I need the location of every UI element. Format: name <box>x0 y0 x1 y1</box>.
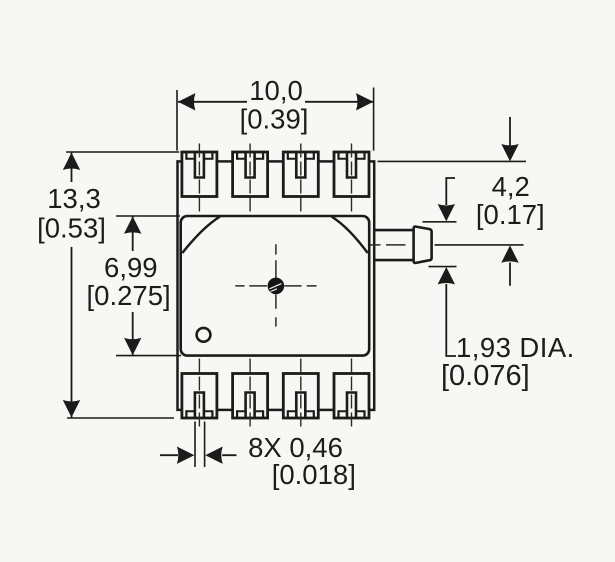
center vent hole <box>268 278 285 295</box>
dia 1,93 bottom leader <box>446 284 456 356</box>
svg-text:6,99: 6,99 <box>104 252 158 283</box>
port centerline dashes <box>364 244 406 246</box>
svg-text:13,3: 13,3 <box>47 183 101 214</box>
dim 13,3 arrows <box>63 153 80 170</box>
cap (lid) rounded rectangle <box>181 216 370 356</box>
svg-text:[0.018]: [0.018] <box>272 459 356 490</box>
pin 7 bottom <box>233 359 268 427</box>
dia 1,93 extension lines <box>423 222 457 267</box>
dia 1,93 top leader <box>445 178 455 205</box>
port tube <box>374 230 415 260</box>
dim 4,2 extension line (body top edge) <box>378 160 527 162</box>
pin 2 top <box>233 144 268 212</box>
svg-text:10,0: 10,0 <box>249 75 303 106</box>
pin 5 bottom <box>334 359 369 427</box>
svg-text:4,2: 4,2 <box>492 171 530 202</box>
svg-text:[0.53]: [0.53] <box>37 213 106 244</box>
pin 1 indicator circle <box>197 328 211 342</box>
dim 6,99 arrows <box>124 216 141 233</box>
svg-text:[0.076]: [0.076] <box>441 360 530 392</box>
port centerline extension <box>435 244 524 246</box>
dim 13,3 line <box>71 153 73 418</box>
svg-text:[0.275]: [0.275] <box>87 280 171 311</box>
dim 10,0 arrows <box>178 93 195 110</box>
dim 8X 0,46 extension lines <box>195 422 205 468</box>
dim 13,3 extension lines <box>66 152 179 418</box>
dim 10,0 extension lines <box>177 88 374 151</box>
svg-text:[0.17]: [0.17] <box>476 199 545 230</box>
pin 3 top <box>283 144 318 212</box>
cap left corner sweep <box>182 217 220 254</box>
cap right corner sweep <box>332 217 368 254</box>
dim 8X arrows and shafts <box>160 454 237 456</box>
dim 6,99 extension lines <box>116 216 181 356</box>
pin 4 top <box>334 144 369 212</box>
port barb tip <box>414 227 432 263</box>
pin 6 bottom <box>283 359 318 427</box>
dim 4,2 arrows and leaders <box>509 117 511 286</box>
center crosshair <box>235 244 316 326</box>
svg-text:1,93 DIA.: 1,93 DIA. <box>456 332 575 363</box>
package body outline <box>178 161 375 410</box>
dim 6,99 line <box>132 216 134 355</box>
svg-text:[0.39]: [0.39] <box>240 104 309 135</box>
dim 10,0 line <box>178 101 373 103</box>
pin 1 top <box>182 144 217 212</box>
pin 8 bottom <box>182 359 217 427</box>
